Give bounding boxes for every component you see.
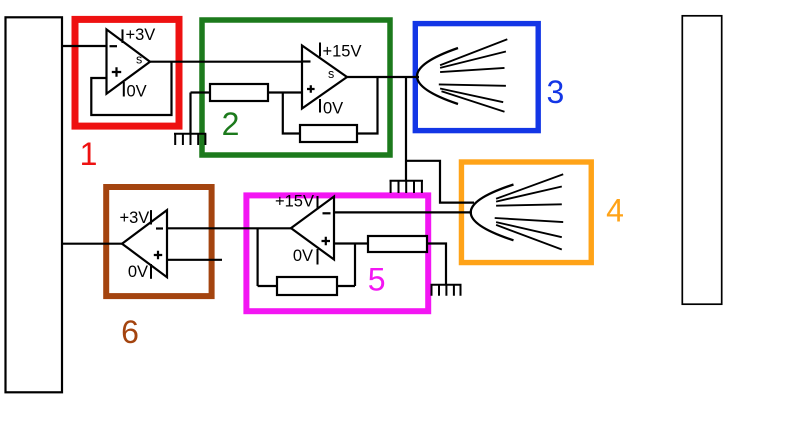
svg-text:0V: 0V [323,100,343,118]
svg-text:s: s [136,52,142,66]
svg-text:4: 4 [606,193,624,229]
svg-text:+3V: +3V [119,209,149,227]
svg-text:1: 1 [80,136,98,172]
svg-text:2: 2 [222,106,240,142]
svg-text:6: 6 [121,314,139,350]
svg-text:0V: 0V [128,263,148,281]
svg-text:+15V: +15V [275,193,314,211]
svg-text:+15V: +15V [323,42,362,60]
svg-text:s: s [328,67,334,81]
svg-text:3: 3 [547,74,565,110]
svg-text:0V: 0V [127,83,147,101]
svg-text:0V: 0V [293,247,313,265]
svg-text:+3V: +3V [126,26,156,44]
svg-text:5: 5 [368,262,386,298]
